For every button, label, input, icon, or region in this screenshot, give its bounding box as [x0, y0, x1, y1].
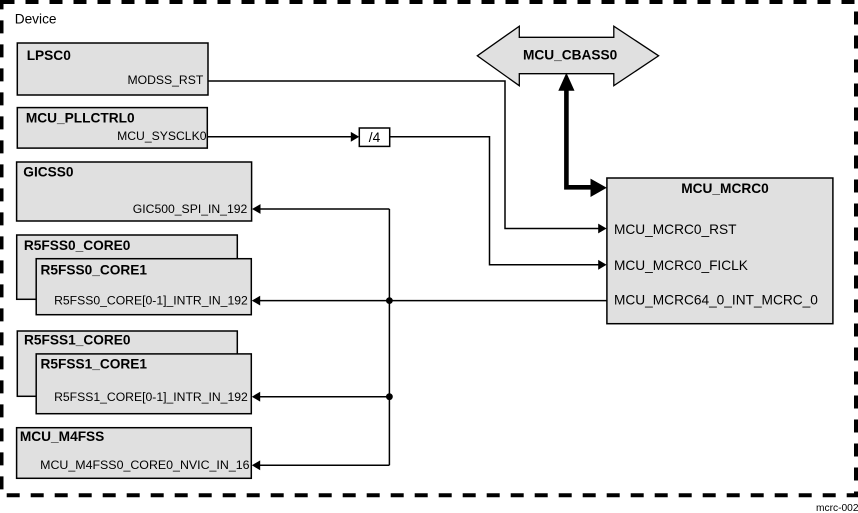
block MCU_M4FSS	[17, 428, 252, 479]
svg-text:MCU_MCRC64_0_INT_MCRC_0: MCU_MCRC64_0_INT_MCRC_0	[614, 292, 818, 307]
block R5FSS0_CORE1	[36, 259, 251, 315]
bus MCU_CBASS0	[477, 26, 658, 85]
svg-text:MCU_SYSCLK0: MCU_SYSCLK0	[117, 129, 207, 143]
block R5FSS1_CORE0	[17, 331, 237, 396]
wire /4 to MCU_MCRC0_FICLK	[390, 137, 600, 265]
svg-text:MCU_CBASS0: MCU_CBASS0	[523, 47, 618, 62]
wire MODSS_RST to MCU_MCRC0_RST	[208, 81, 600, 229]
svg-text:MODSS_RST: MODSS_RST	[127, 73, 203, 87]
svg-text:MCU_M4FSS: MCU_M4FSS	[20, 429, 104, 444]
svg-text:GIC500_SPI_IN_192: GIC500_SPI_IN_192	[133, 202, 248, 216]
svg-text:R5FSS1_CORE[0-1]_INTR_IN_192: R5FSS1_CORE[0-1]_INTR_IN_192	[54, 390, 248, 404]
svg-text:R5FSS1_CORE1: R5FSS1_CORE1	[41, 356, 148, 371]
wire MCU_SYSCLK0 to /4	[207, 136, 352, 138]
svg-text:R5FSS0_CORE[0-1]_INTR_IN_192: R5FSS0_CORE[0-1]_INTR_IN_192	[54, 294, 248, 308]
arrowhead into R5FSS1_CORE1	[252, 392, 260, 402]
divider /4	[359, 128, 389, 146]
wire branch to R5FSS1_CORE1	[259, 396, 389, 398]
block MCU_MCRC0	[607, 178, 833, 324]
svg-text:GICSS0: GICSS0	[23, 164, 74, 179]
arrowhead into MCU_M4FSS	[252, 460, 260, 470]
svg-text:LPSC0: LPSC0	[27, 48, 72, 63]
wire trunk vertical	[388, 209, 390, 465]
block GICSS0	[17, 162, 252, 221]
svg-text:R5FSS1_CORE0: R5FSS1_CORE0	[24, 333, 131, 348]
svg-text:MCU_M4FSS0_CORE0_NVIC_IN_16: MCU_M4FSS0_CORE0_NVIC_IN_16	[40, 458, 249, 472]
svg-text:MCU_PLLCTRL0: MCU_PLLCTRL0	[26, 111, 135, 126]
wire branch to MCU_M4FSS	[259, 464, 389, 466]
junction dot at R5FSS1 branch	[386, 393, 393, 400]
block MCU_PLLCTRL0	[17, 108, 207, 149]
wire branch to GIC500_SPI_IN_192	[260, 208, 390, 210]
arrowhead into /4	[351, 132, 359, 142]
svg-text:MCU_MCRC0_RST: MCU_MCRC0_RST	[614, 222, 737, 237]
svg-text:mcrc-002: mcrc-002	[816, 503, 858, 513]
wire MCU_MCRC64_0_INT_MCRC_0 to R5FSS0_CORE1	[259, 300, 607, 302]
block R5FSS0_CORE0	[17, 235, 238, 299]
svg-text:/4: /4	[369, 130, 381, 145]
thick arrow MCU_CBASS0 to MCU_MCRC0	[558, 73, 607, 197]
arrowhead into R5FSS0_CORE1	[252, 296, 260, 306]
arrowhead into MCU_MCRC0_RST	[598, 224, 606, 234]
svg-text:R5FSS0_CORE0: R5FSS0_CORE0	[24, 238, 131, 253]
svg-text:MCU_MCRC0_FICLK: MCU_MCRC0_FICLK	[614, 258, 748, 273]
svg-text:MCU_MCRC0: MCU_MCRC0	[681, 181, 769, 196]
svg-text:Device: Device	[15, 11, 57, 26]
arrowhead into MCU_MCRC0_FICLK	[598, 260, 606, 270]
junction dot at R5FSS0 branch	[386, 297, 393, 304]
block LPSC0	[17, 43, 208, 95]
svg-text:R5FSS0_CORE1: R5FSS0_CORE1	[41, 262, 148, 277]
arrowhead into GICSS0	[252, 204, 260, 214]
block R5FSS1_CORE1	[36, 354, 251, 414]
